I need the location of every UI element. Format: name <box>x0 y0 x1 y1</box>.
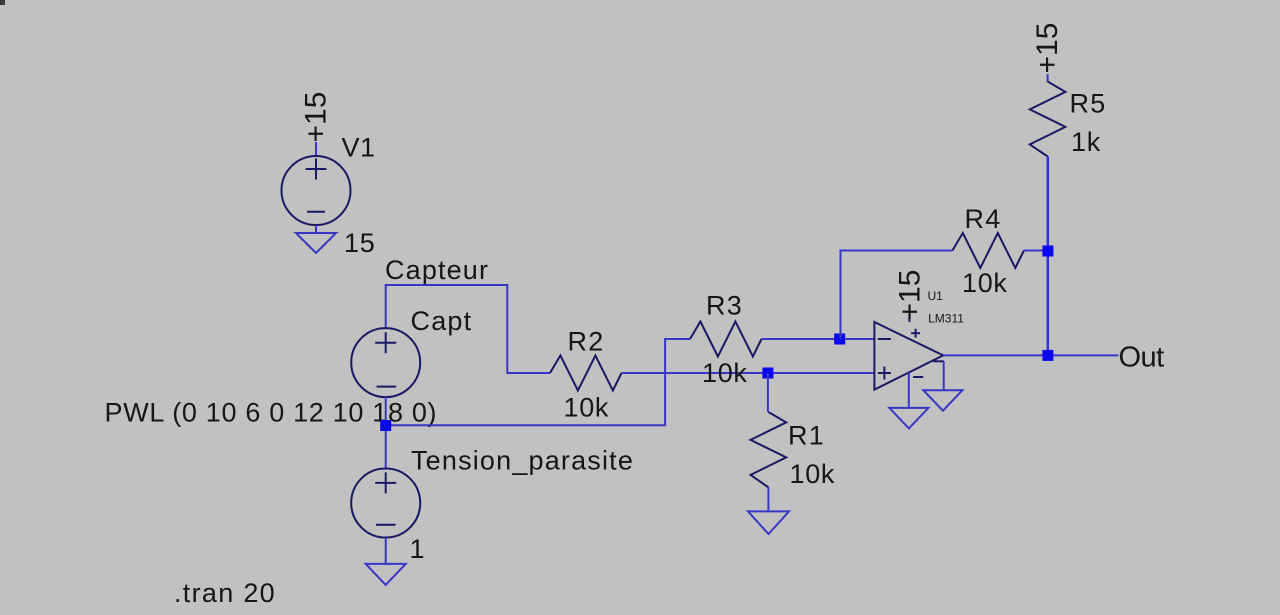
voltage source Tension_parasite <box>351 469 420 538</box>
svg-text:R2: R2 <box>568 327 605 357</box>
wire <box>622 372 875 374</box>
ground <box>923 390 962 411</box>
wire V- pin <box>908 373 910 408</box>
junction R4/R5 node <box>1042 246 1053 257</box>
resistor R4 <box>952 233 1024 268</box>
ground <box>366 564 406 585</box>
svg-text:10k: 10k <box>564 393 610 423</box>
svg-text:10k: 10k <box>790 459 836 489</box>
junction minus input node <box>834 334 845 345</box>
wire <box>386 285 550 373</box>
wire <box>315 142 317 157</box>
svg-text:1k: 1k <box>1071 127 1101 157</box>
wire <box>315 225 317 233</box>
wire <box>767 373 769 412</box>
svg-text:Tension_parasite: Tension_parasite <box>411 446 634 476</box>
wire <box>762 338 875 340</box>
voltage source Capt <box>351 328 420 397</box>
svg-text:R1: R1 <box>788 421 825 451</box>
svg-text:Out: Out <box>1119 342 1165 374</box>
svg-text:+15: +15 <box>1031 23 1064 74</box>
svg-text:LM311: LM311 <box>928 312 964 326</box>
op-amp U1 <box>874 314 943 390</box>
wire gnd pin <box>943 361 945 390</box>
svg-text:+15: +15 <box>894 270 927 321</box>
voltage source V1 <box>282 156 351 225</box>
junction Out node <box>1042 350 1053 361</box>
wire <box>385 538 387 564</box>
svg-text:R3: R3 <box>706 291 743 321</box>
svg-text:Capt: Capt <box>411 306 473 336</box>
wire <box>386 339 690 425</box>
svg-text:.tran 20: .tran 20 <box>174 578 276 608</box>
svg-text:15: 15 <box>344 228 375 258</box>
junction plus input node <box>762 368 773 379</box>
svg-text:U1: U1 <box>928 289 944 303</box>
resistor R5 <box>1030 82 1066 157</box>
resistor R2 <box>550 356 622 391</box>
ground <box>889 408 928 429</box>
wire <box>767 487 769 511</box>
svg-text:R4: R4 <box>965 204 1002 234</box>
svg-text:R5: R5 <box>1070 89 1107 119</box>
resistor R3 <box>690 322 762 357</box>
ground <box>296 233 336 253</box>
wire <box>1024 250 1048 252</box>
wire <box>1047 157 1050 356</box>
wire output <box>943 354 1118 356</box>
svg-text:V1: V1 <box>342 132 376 162</box>
junction PWL node <box>380 420 391 431</box>
svg-text:1: 1 <box>410 534 425 564</box>
wire <box>1047 74 1049 82</box>
svg-text:10k: 10k <box>962 268 1008 298</box>
svg-text:+15: +15 <box>300 92 333 143</box>
svg-text:10k: 10k <box>702 358 748 388</box>
svg-text:Capteur: Capteur <box>385 255 489 285</box>
wire <box>385 397 387 469</box>
wire <box>841 251 953 340</box>
resistor R1 <box>751 412 787 487</box>
ground <box>748 511 789 534</box>
